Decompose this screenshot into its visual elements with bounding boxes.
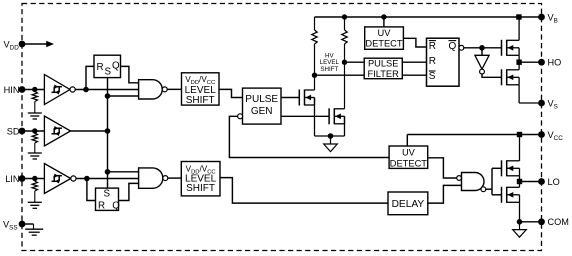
svg-text:LO: LO (548, 177, 560, 187)
svg-text:DETECT: DETECT (390, 159, 428, 169)
svg-text:VCC: VCC (548, 130, 564, 142)
svg-text:LIN: LIN (5, 174, 19, 184)
svg-text:DELAY: DELAY (392, 199, 425, 210)
svg-text:S: S (105, 67, 112, 78)
svg-text:COM: COM (548, 217, 569, 227)
svg-text:LEVEL: LEVEL (320, 59, 340, 66)
svg-text:Q: Q (112, 200, 120, 211)
svg-text:GEN: GEN (251, 106, 273, 117)
svg-text:PULSE: PULSE (245, 94, 278, 105)
svg-text:Q: Q (112, 60, 120, 71)
svg-text:R: R (98, 200, 105, 211)
svg-text:R: R (429, 41, 436, 52)
svg-text:HO: HO (548, 58, 562, 68)
svg-text:DETECT: DETECT (365, 38, 403, 48)
svg-text:PULSE: PULSE (368, 59, 399, 69)
svg-text:Q: Q (449, 41, 457, 52)
svg-text:VSS: VSS (3, 219, 18, 231)
svg-text:UV: UV (402, 147, 416, 157)
svg-text:FILTER: FILTER (368, 69, 400, 79)
svg-text:VS: VS (548, 98, 558, 110)
svg-text:R: R (429, 56, 436, 67)
svg-text:R: R (97, 62, 104, 73)
svg-text:UV: UV (378, 28, 392, 38)
svg-text:SHIFT: SHIFT (186, 95, 215, 106)
svg-text:S: S (104, 189, 111, 200)
svg-text:HIN: HIN (4, 85, 20, 95)
svg-text:SHIFT: SHIFT (320, 66, 338, 73)
svg-text:VB: VB (548, 12, 558, 24)
svg-text:SD: SD (7, 126, 20, 136)
svg-text:VDD: VDD (4, 39, 20, 51)
svg-text:S: S (429, 71, 436, 82)
svg-text:SHIFT: SHIFT (186, 183, 215, 194)
